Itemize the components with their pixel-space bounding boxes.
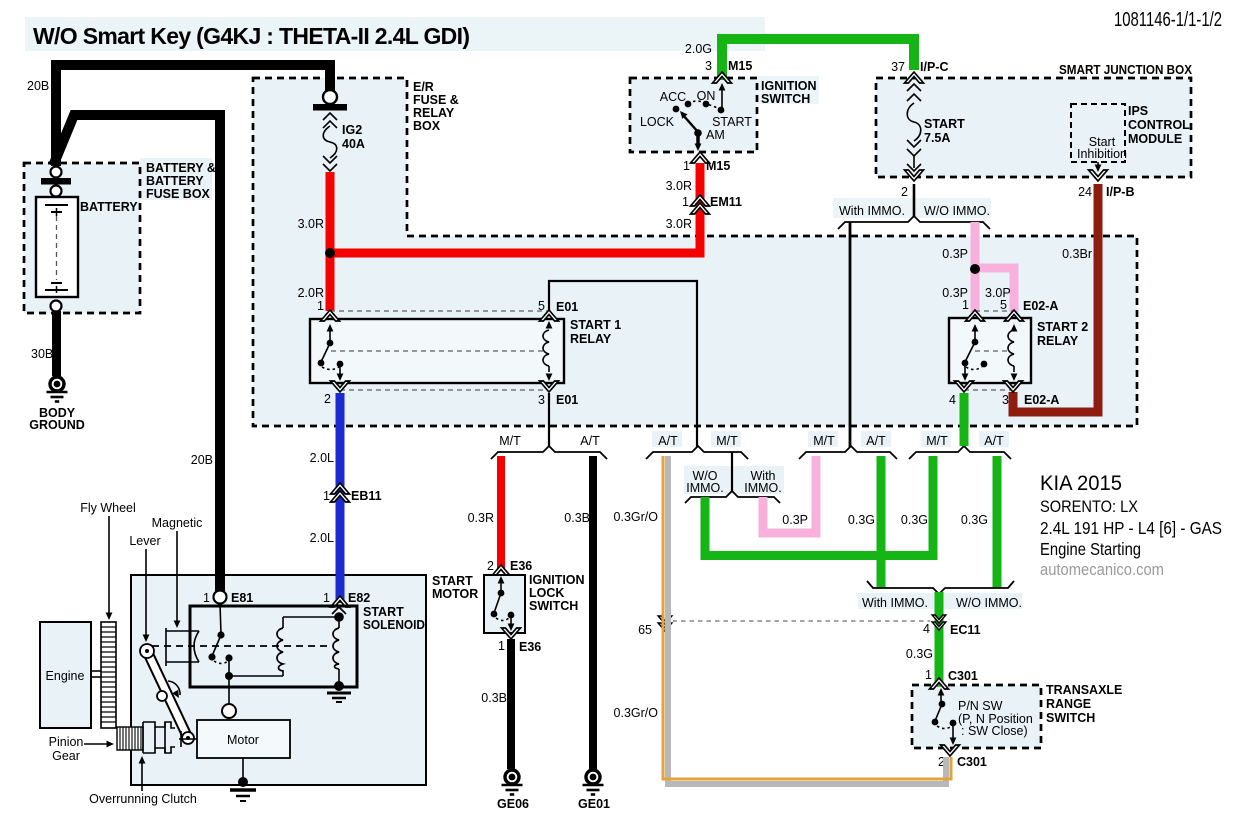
svg-text:0.3P: 0.3P — [942, 247, 968, 261]
wire from SJB pin 2 — [913, 184, 916, 217]
solenoid ground — [327, 681, 351, 702]
svg-text:W/O IMMO.: W/O IMMO. — [956, 596, 1022, 610]
svg-text:GROUND: GROUND — [29, 418, 85, 432]
E/R fuse and relay box fill — [253, 78, 1137, 426]
svg-text:M/T: M/T — [926, 434, 948, 448]
pinion gear striped block — [117, 727, 143, 750]
svg-text:0.3G: 0.3G — [961, 513, 988, 527]
relay START 2 box — [949, 318, 1031, 383]
svg-text:1: 1 — [323, 591, 330, 605]
lever rotation arrow — [168, 681, 180, 695]
svg-text:A/T: A/T — [658, 434, 678, 448]
wire 0.3G brace2 A/T green — [877, 456, 886, 588]
solenoid plunger dashed axis — [152, 645, 332, 647]
overrunning clutch body — [143, 722, 175, 753]
body ground — [47, 377, 68, 402]
wire 20B battery to E/R box (thick black) — [56, 65, 330, 166]
svg-text:1: 1 — [317, 299, 324, 313]
wire 3.0R horizontal from ignition switch (red) — [330, 163, 700, 253]
ignition lock switch box — [484, 575, 525, 633]
svg-text:30B: 30B — [31, 347, 53, 361]
svg-text:0.3B: 0.3B — [564, 511, 590, 525]
svg-text:4: 4 — [949, 393, 956, 407]
wire 20B battery to E81 start motor (thick black) — [53, 115, 220, 591]
svg-text:IGNITION: IGNITION — [529, 573, 585, 587]
svg-text:2.0L: 2.0L — [310, 531, 334, 545]
svg-text:0.3G: 0.3G — [848, 513, 875, 527]
svg-text:START: START — [363, 605, 404, 619]
merge brace with immo / wo immo — [867, 581, 1014, 594]
svg-text:E/R: E/R — [413, 80, 434, 94]
connector E02-A pin4 chevron — [955, 381, 974, 392]
svg-text:Engine Starting: Engine Starting — [1040, 539, 1141, 559]
svg-text:Inhibition: Inhibition — [1077, 147, 1127, 161]
svg-text:START: START — [924, 117, 965, 131]
connector E01 dashed links — [330, 310, 549, 312]
wire 0.3B black A/T to GE01 — [589, 456, 597, 769]
battery BAT1 — [36, 197, 78, 297]
svg-text:2.0R: 2.0R — [298, 286, 324, 300]
with/wo immo label tint — [833, 198, 991, 218]
connector M15 pin1 chevron — [691, 152, 710, 163]
svg-text:AM: AM — [706, 128, 725, 142]
transaxle range switch box (dashed) — [912, 685, 1041, 748]
connector EM11 chevrons — [691, 195, 710, 206]
svg-text:E02-A: E02-A — [1023, 299, 1058, 313]
svg-text:RELAY: RELAY — [413, 106, 455, 120]
svg-text:0.3G: 0.3G — [906, 647, 933, 661]
connector I/P-B pin24 chevron — [1089, 170, 1108, 181]
svg-text:IPS: IPS — [1128, 104, 1148, 118]
ground GE01 — [583, 770, 604, 795]
svg-text:ACC: ACC — [660, 90, 686, 104]
svg-text:LOCK: LOCK — [640, 115, 675, 129]
svg-text:IG2: IG2 — [342, 123, 362, 137]
wire 3.0P pink branch — [975, 268, 1014, 312]
svg-text:C301: C301 — [948, 669, 978, 683]
svg-text:W/O IMMO.: W/O IMMO. — [924, 204, 990, 218]
ignition switch box fill — [630, 78, 757, 152]
svg-text:W/O Smart Key (G4KJ : THETA-II: W/O Smart Key (G4KJ : THETA-II 2.4L GDI) — [33, 23, 470, 49]
IPS control module box (dashed) — [1071, 104, 1125, 162]
ignition switch internals — [673, 83, 726, 151]
svg-text:START 1: START 1 — [570, 318, 621, 332]
battery positive terminal — [51, 167, 62, 178]
wire from pin3 down — [548, 393, 550, 447]
svg-text:EM11: EM11 — [710, 195, 742, 209]
relay START1 switch — [318, 324, 344, 381]
svg-text:2.0G: 2.0G — [685, 42, 712, 56]
wire 2.0G green ignition to I/P-C — [722, 39, 914, 80]
svg-text:I/P-C: I/P-C — [920, 60, 948, 74]
svg-text:1: 1 — [203, 591, 210, 605]
relay START 1 box — [310, 319, 564, 383]
svg-text:BOX: BOX — [413, 119, 441, 133]
svg-text:EB11: EB11 — [351, 489, 382, 503]
fuse IG2 40A — [323, 113, 337, 171]
fuse START 7.5A — [907, 84, 921, 171]
svg-text:E01: E01 — [556, 393, 578, 407]
wire 0.3P pink vertical — [971, 222, 980, 312]
svg-text:TRANSAXLE: TRANSAXLE — [1046, 683, 1122, 697]
connector M15 pin3 chevron — [713, 72, 732, 83]
svg-text:RELAY: RELAY — [570, 332, 612, 346]
svg-text:0.3B: 0.3B — [481, 691, 507, 705]
svg-text:Motor: Motor — [227, 733, 259, 747]
connector E81 terminal circle — [214, 591, 227, 604]
svg-text:Magnetic: Magnetic — [152, 516, 203, 530]
connector EC11 dashed link — [664, 620, 930, 622]
svg-text:37: 37 — [891, 60, 905, 74]
svg-text:SWITCH: SWITCH — [1046, 711, 1095, 725]
connector E01 pin5 chevron — [540, 310, 559, 321]
start motor box (solid) — [131, 575, 426, 785]
ignition switch box (dashed) — [630, 78, 757, 152]
relay START2 switch — [962, 324, 988, 381]
svg-text:1: 1 — [498, 639, 505, 653]
svg-text:START: START — [432, 574, 473, 588]
motor shaft — [179, 731, 197, 747]
solenoid switch — [208, 604, 232, 675]
battery box fill — [24, 163, 140, 313]
svg-text:E82: E82 — [348, 591, 370, 605]
svg-text:With IMMO.: With IMMO. — [862, 596, 928, 610]
transaxle range switch fill — [912, 685, 1041, 748]
svg-text:E02-A: E02-A — [1024, 393, 1059, 407]
wire 0.3G green from start2 pin4 — [960, 393, 969, 446]
svg-text:3: 3 — [538, 393, 545, 407]
svg-text:MODULE: MODULE — [1128, 132, 1182, 146]
svg-text:4: 4 — [923, 622, 930, 636]
svg-text:E36: E36 — [519, 640, 541, 654]
svg-text:2: 2 — [324, 392, 331, 406]
svg-text:2: 2 — [487, 559, 494, 573]
svg-text:1: 1 — [925, 668, 932, 682]
relay START1 coil — [543, 321, 552, 381]
wire 3.0R IG2 down (red) — [326, 172, 335, 311]
ignition lock switch internals — [491, 576, 515, 631]
svg-text:A/T: A/T — [984, 434, 1004, 448]
wire 0.3R red M/T to ignition lock switch — [497, 456, 505, 569]
svg-text:5: 5 — [1000, 298, 1007, 312]
wire 0.3G merged green down — [935, 592, 944, 686]
svg-text:M/T: M/T — [813, 434, 835, 448]
wire 30B — [52, 311, 61, 376]
wire 0.3Gr/O grey-orange pair — [663, 456, 951, 784]
svg-text:0.3Gr/O: 0.3Gr/O — [614, 510, 659, 524]
connector C301 pin2 chevron — [941, 745, 960, 756]
title background tint — [25, 17, 765, 51]
transmission label tints — [652, 431, 682, 447]
connector 65 chevrons on tan wire — [657, 614, 673, 634]
connector EC11 pin4 chevrons — [932, 615, 946, 623]
solenoid hold-in coil — [332, 607, 346, 683]
svg-text:E36: E36 — [510, 559, 532, 573]
smart junction box fill — [876, 78, 1191, 177]
immo option brace top — [838, 216, 990, 229]
connector E01 pin1 chevron — [321, 310, 340, 321]
svg-text:5: 5 — [538, 299, 545, 313]
svg-text:65: 65 — [638, 623, 652, 637]
svg-text:Lever: Lever — [129, 534, 160, 548]
svg-text:BATTERY &: BATTERY & — [146, 161, 216, 175]
svg-text:Overrunning Clutch: Overrunning Clutch — [89, 792, 197, 806]
connector E01 pin3 chevron — [540, 381, 559, 392]
wire 0.3G brace4 M/T green — [929, 456, 938, 556]
motor ground — [230, 758, 256, 801]
brace A/T M/T under pin5 wire — [646, 446, 748, 459]
svg-text:M15: M15 — [728, 59, 752, 73]
svg-text:Pinion: Pinion — [49, 735, 84, 749]
svg-text:MOTOR: MOTOR — [432, 587, 478, 601]
svg-text:20B: 20B — [27, 79, 49, 93]
flywheel ring gear — [101, 622, 116, 728]
svg-text:SMART JUNCTION BOX: SMART JUNCTION BOX — [1059, 63, 1193, 77]
svg-text:IMMO.: IMMO. — [686, 481, 724, 495]
svg-text:KIA 2015: KIA 2015 — [1040, 472, 1122, 495]
connector E01 pin2 chevron — [331, 381, 350, 392]
svg-text:40A: 40A — [342, 137, 365, 151]
svg-text:With IMMO.: With IMMO. — [839, 204, 905, 218]
svg-text:P/N SW: P/N SW — [958, 699, 1003, 713]
svg-text:RELAY: RELAY — [1037, 334, 1079, 348]
svg-text:: SW Close): : SW Close) — [961, 724, 1028, 738]
svg-text:GE01: GE01 — [578, 797, 610, 811]
wire 0.3G wo-immo green down — [701, 497, 710, 559]
junction dot red — [325, 248, 335, 258]
svg-text:FUSE BOX: FUSE BOX — [146, 187, 211, 201]
svg-text:3.0R: 3.0R — [298, 217, 324, 231]
svg-text:I/P-B: I/P-B — [1106, 185, 1134, 199]
brace M/T A/T with-immo — [799, 446, 897, 459]
svg-text:0.3Br: 0.3Br — [1062, 247, 1092, 261]
svg-text:A/T: A/T — [866, 434, 886, 448]
IG2 terminal in E/R box — [323, 90, 337, 104]
svg-text:SORENTO: LX: SORENTO: LX — [1040, 497, 1138, 516]
ground GE06 — [502, 770, 523, 795]
svg-text:Gear: Gear — [52, 749, 80, 763]
connector C301 pin1 chevron — [930, 678, 949, 689]
solenoid pull-in coil — [229, 617, 339, 676]
svg-text:1: 1 — [962, 298, 969, 312]
sub-brace W/O IMMO With IMMO — [685, 491, 780, 503]
wire 0.3B to GE06 — [507, 639, 515, 769]
svg-text:LOCK: LOCK — [529, 586, 564, 600]
battery bottom terminal — [51, 301, 62, 312]
wire from pin5 up over to A/T brace — [549, 281, 697, 447]
svg-text:FUSE &: FUSE & — [413, 93, 459, 107]
battery and battery fuse box (dashed) — [24, 163, 140, 313]
brace M/T A/T start2 pin4 — [909, 446, 1011, 459]
connector E02-A pin3 chevron — [1004, 381, 1023, 392]
wire green horizontal bus — [701, 551, 938, 560]
svg-text:E81: E81 — [231, 591, 253, 605]
connector E02-A dashed links — [975, 310, 1014, 312]
svg-text:CONTROL: CONTROL — [1128, 118, 1190, 132]
svg-text:1: 1 — [323, 489, 330, 503]
svg-text:0.3R: 0.3R — [468, 511, 494, 525]
connector E02-A pin5 chevron — [1005, 310, 1024, 321]
lever arm — [140, 644, 194, 744]
svg-text:SWITCH: SWITCH — [761, 92, 810, 106]
svg-text:IMMO.: IMMO. — [744, 481, 782, 495]
junction dot pink — [970, 264, 980, 274]
wire with-immo black — [849, 222, 852, 447]
engine flywheel link — [91, 670, 101, 672]
svg-text:3: 3 — [1002, 393, 1009, 407]
wire 0.3G brace4 A/T green — [993, 456, 1002, 588]
svg-text:M/T: M/T — [499, 434, 521, 448]
wire 0.3Br dark red I/P-B to relay pin3 — [1013, 184, 1098, 412]
svg-text:1081146-1/1-1/2: 1081146-1/1-1/2 — [1114, 9, 1222, 31]
svg-text:M15: M15 — [706, 159, 730, 173]
connector E36 pin1 chevron — [502, 628, 521, 639]
solenoid junction dot — [225, 672, 233, 680]
wire 2.0L blue — [336, 393, 345, 603]
connector EB11 chevrons — [331, 483, 350, 494]
svg-text:SOLENOID: SOLENOID — [363, 618, 425, 632]
svg-text:A/T: A/T — [580, 434, 600, 448]
svg-text:2: 2 — [901, 185, 908, 199]
svg-text:M/T: M/T — [716, 434, 738, 448]
connector E82 chevron on blue — [331, 596, 350, 607]
svg-text:E01: E01 — [556, 300, 578, 314]
svg-text:Fly Wheel: Fly Wheel — [80, 501, 136, 515]
svg-text:2.0L: 2.0L — [310, 451, 334, 465]
svg-text:GE06: GE06 — [497, 797, 529, 811]
svg-text:BATTERY: BATTERY — [146, 174, 204, 188]
svg-text:Engine: Engine — [46, 669, 85, 683]
motor box — [197, 720, 290, 758]
svg-text:3.0R: 3.0R — [666, 217, 692, 231]
start inhibition arrow — [1097, 162, 1099, 169]
svg-text:START: START — [712, 115, 752, 129]
svg-text:1: 1 — [682, 195, 689, 209]
svg-text:SWITCH: SWITCH — [529, 599, 578, 613]
start solenoid box — [190, 606, 357, 687]
brace M/T A/T under start1 pin3 — [491, 446, 607, 459]
connector E02-A pin1 chevron — [966, 310, 985, 321]
relay START2 coil — [1008, 324, 1017, 381]
relay START2 internal dashed — [975, 350, 1010, 352]
svg-text:0.3P: 0.3P — [782, 513, 808, 527]
connector E36 pin2 chevron — [492, 565, 511, 576]
motor terminal circle — [222, 704, 236, 718]
svg-text:7.5A: 7.5A — [924, 131, 950, 145]
wire 0.3P with-immo pink hook — [763, 456, 816, 533]
svg-text:IGNITION: IGNITION — [761, 79, 817, 93]
svg-text:C301: C301 — [957, 755, 987, 769]
transaxle range switch internals P/N SW — [932, 688, 957, 745]
E/R fuse relay box outline (dashed) — [253, 78, 1137, 426]
svg-text:1: 1 — [683, 159, 690, 173]
svg-text:EC11: EC11 — [950, 623, 981, 637]
smart junction box (dashed) — [876, 78, 1191, 177]
svg-text:automecanico.com: automecanico.com — [1040, 561, 1164, 579]
SJB pin2 exit chevron — [905, 170, 924, 181]
engine block — [40, 622, 91, 728]
svg-text:START 2: START 2 — [1037, 320, 1088, 334]
svg-text:BATTERY: BATTERY — [80, 200, 138, 214]
svg-text:0.3Gr/O: 0.3Gr/O — [614, 706, 659, 720]
svg-text:ON: ON — [697, 89, 716, 103]
svg-text:0.3G: 0.3G — [901, 513, 928, 527]
wire M/T black down to immo sub-brace — [731, 452, 733, 491]
svg-text:24: 24 — [1078, 185, 1092, 199]
solenoid plunger — [166, 628, 199, 666]
connector I/P-C pin37 chevron — [905, 72, 924, 83]
svg-text:2.4L 191 HP - L4 [6] - GAS: 2.4L 191 HP - L4 [6] - GAS — [1040, 518, 1222, 538]
svg-text:20B: 20B — [191, 453, 213, 467]
svg-text:RANGE: RANGE — [1046, 697, 1091, 711]
relay START1 internal dashed — [331, 350, 545, 352]
svg-text:3.0R: 3.0R — [666, 179, 692, 193]
svg-text:3: 3 — [705, 59, 712, 73]
